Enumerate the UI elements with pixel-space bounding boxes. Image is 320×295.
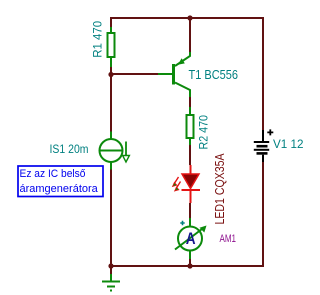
svg-text:V1 12: V1 12 (273, 137, 304, 151)
node junction bottom-mid (187, 263, 192, 268)
svg-text:Ez az IC belső: Ez az IC belső (20, 168, 86, 180)
ammeter AM1 (175, 218, 207, 259)
resistor R1 (108, 27, 115, 67)
node junction top (187, 15, 192, 20)
svg-text:IS1 20m: IS1 20m (50, 142, 89, 156)
wire left rail lower (110, 170, 112, 266)
wire base (111, 73, 158, 75)
svg-text:R2 470: R2 470 (196, 115, 210, 150)
node junction base-left (108, 72, 113, 77)
wire R2 to LED (189, 145, 191, 165)
svg-text:A: A (186, 229, 196, 248)
LED1 (173, 165, 201, 203)
node junction bottom-left (108, 263, 113, 268)
svg-text:LED1 CQX35A: LED1 CQX35A (213, 153, 227, 225)
ground (102, 267, 120, 291)
wire bottom rail (110, 265, 264, 267)
wire collector down (189, 97, 191, 108)
svg-text:áramgenerátora: áramgenerátora (20, 183, 99, 195)
wire LED to ammeter (189, 203, 191, 218)
wire left rail mid (110, 67, 112, 132)
text box note (18, 166, 103, 197)
resistor R2 (187, 107, 194, 145)
transistor T1 BC556 (158, 52, 190, 98)
wire right rail lower (262, 162, 264, 267)
battery V1 (254, 129, 273, 162)
wire emitter to top (189, 17, 191, 52)
svg-text:R1 470: R1 470 (91, 20, 105, 57)
wire ammeter to bottom (189, 259, 191, 265)
wire top rail (110, 17, 264, 19)
svg-text:T1 BC556: T1 BC556 (189, 68, 239, 82)
wire left rail upper (110, 17, 112, 27)
current source IS1 (100, 132, 130, 170)
wire right rail upper (262, 17, 264, 130)
svg-text:AM1: AM1 (220, 233, 237, 245)
